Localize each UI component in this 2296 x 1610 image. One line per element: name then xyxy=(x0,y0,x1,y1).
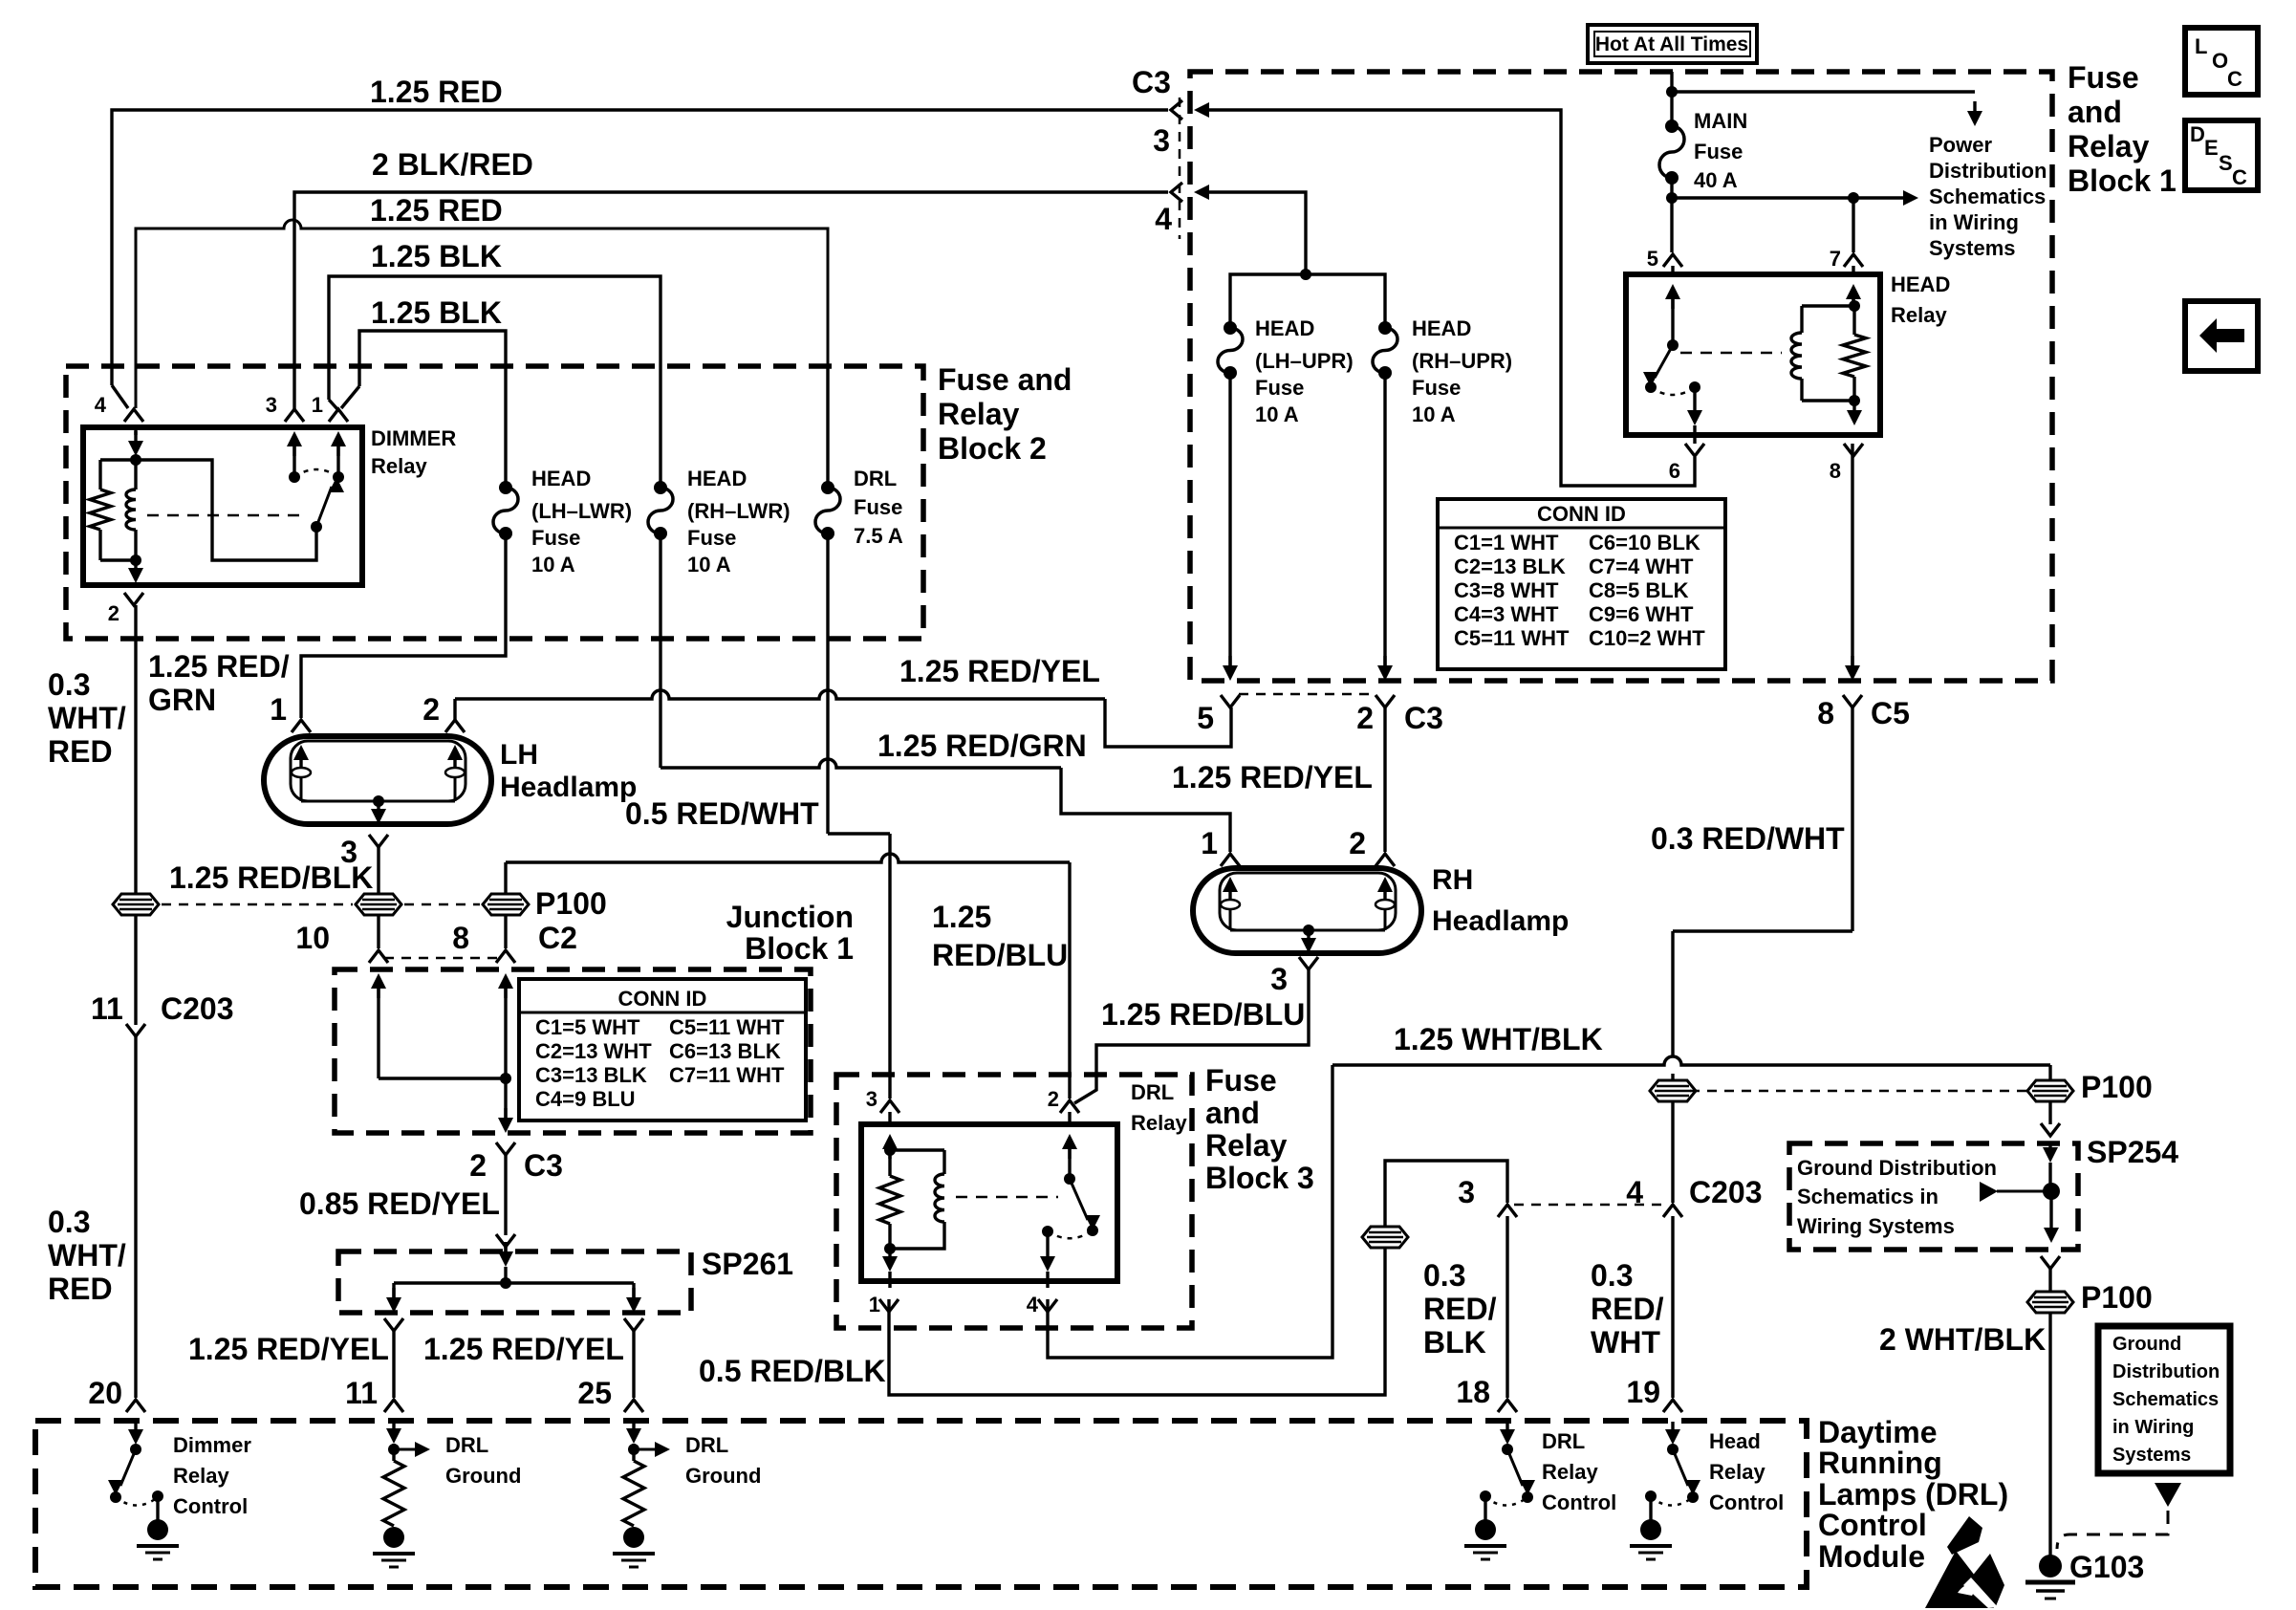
svg-text:P100: P100 xyxy=(2081,1280,2153,1315)
svg-text:Dimmer: Dimmer xyxy=(173,1433,251,1457)
svg-text:4: 4 xyxy=(1626,1175,1643,1209)
svg-text:2 BLK/RED: 2 BLK/RED xyxy=(372,147,533,182)
svg-text:0.3: 0.3 xyxy=(48,667,90,702)
svg-text:Fuse: Fuse xyxy=(687,526,736,550)
svg-text:4: 4 xyxy=(1027,1293,1039,1316)
svg-text:S: S xyxy=(2219,151,2233,175)
svg-text:Ground Distribution: Ground Distribution xyxy=(1797,1156,1997,1180)
svg-text:Relay: Relay xyxy=(1205,1128,1288,1163)
svg-text:C2=13 WHT: C2=13 WHT xyxy=(535,1039,652,1063)
svg-text:0.85 RED/YEL: 0.85 RED/YEL xyxy=(299,1186,500,1221)
svg-text:WHT/: WHT/ xyxy=(48,1238,126,1273)
svg-text:Distribution: Distribution xyxy=(1929,159,2047,183)
svg-text:1.25 BLK: 1.25 BLK xyxy=(371,239,502,273)
svg-text:18: 18 xyxy=(1456,1375,1490,1409)
svg-text:Fuse and: Fuse and xyxy=(938,362,1072,397)
svg-text:CONN ID: CONN ID xyxy=(618,987,707,1011)
svg-text:in Wiring: in Wiring xyxy=(1929,210,2019,234)
svg-text:HEAD: HEAD xyxy=(1255,316,1314,340)
svg-text:6: 6 xyxy=(1669,459,1680,483)
svg-text:2: 2 xyxy=(1048,1087,1059,1111)
svg-text:1: 1 xyxy=(270,692,287,727)
svg-text:0.3: 0.3 xyxy=(1591,1258,1633,1293)
svg-text:(LH–UPR): (LH–UPR) xyxy=(1255,349,1354,373)
svg-text:0.3: 0.3 xyxy=(1423,1258,1465,1293)
svg-text:E: E xyxy=(2204,136,2219,160)
svg-text:(RH–UPR): (RH–UPR) xyxy=(1412,349,1512,373)
svg-text:5: 5 xyxy=(1197,701,1214,735)
svg-text:C1=5 WHT: C1=5 WHT xyxy=(535,1015,640,1039)
svg-text:1.25 RED/GRN: 1.25 RED/GRN xyxy=(877,729,1087,763)
svg-text:Schematics: Schematics xyxy=(1929,185,2046,208)
svg-text:C6=13 BLK: C6=13 BLK xyxy=(669,1039,781,1063)
svg-text:4: 4 xyxy=(95,393,107,417)
svg-text:1.25 RED: 1.25 RED xyxy=(370,75,503,109)
svg-text:Systems: Systems xyxy=(2112,1445,2191,1466)
svg-text:Ground: Ground xyxy=(445,1464,521,1488)
svg-text:11: 11 xyxy=(345,1376,378,1410)
svg-text:RED/: RED/ xyxy=(1591,1292,1664,1326)
svg-text:Relay: Relay xyxy=(2068,129,2150,163)
svg-text:Ground: Ground xyxy=(685,1464,761,1488)
svg-text:C2: C2 xyxy=(538,921,577,955)
svg-text:Fuse: Fuse xyxy=(854,495,902,519)
svg-text:DRL: DRL xyxy=(1542,1429,1585,1453)
svg-text:Relay: Relay xyxy=(173,1464,229,1488)
svg-text:Fuse: Fuse xyxy=(2068,60,2139,95)
svg-text:Block 2: Block 2 xyxy=(938,431,1047,466)
svg-text:C5=11 WHT: C5=11 WHT xyxy=(1454,626,1570,650)
svg-text:Hot At All Times: Hot At All Times xyxy=(1595,33,1748,55)
svg-text:HEAD: HEAD xyxy=(531,467,591,490)
svg-text:1.25 RED/YEL: 1.25 RED/YEL xyxy=(1172,760,1373,794)
svg-text:C2=13 BLK: C2=13 BLK xyxy=(1454,555,1566,578)
svg-text:RED/BLU: RED/BLU xyxy=(932,938,1068,972)
svg-text:Head: Head xyxy=(1709,1429,1761,1453)
svg-text:C3: C3 xyxy=(524,1148,563,1183)
svg-text:DRL: DRL xyxy=(854,467,897,490)
svg-text:SP254: SP254 xyxy=(2087,1135,2178,1169)
svg-text:1: 1 xyxy=(1201,826,1218,860)
svg-text:0.3: 0.3 xyxy=(48,1205,90,1239)
svg-text:Control: Control xyxy=(1709,1490,1784,1514)
svg-text:Headlamp: Headlamp xyxy=(500,772,637,803)
svg-text:(RH–LWR): (RH–LWR) xyxy=(687,499,791,523)
svg-text:C: C xyxy=(2227,67,2242,91)
svg-text:19: 19 xyxy=(1626,1375,1660,1409)
svg-text:Junction: Junction xyxy=(726,900,854,934)
svg-text:0.5 RED/WHT: 0.5 RED/WHT xyxy=(625,796,819,831)
svg-text:25: 25 xyxy=(577,1376,612,1410)
svg-text:O: O xyxy=(2212,49,2228,73)
svg-text:C203: C203 xyxy=(161,991,234,1026)
svg-text:10 A: 10 A xyxy=(687,553,731,577)
svg-text:3: 3 xyxy=(1153,123,1170,158)
svg-text:1.25: 1.25 xyxy=(932,900,991,934)
svg-text:Relay: Relay xyxy=(1542,1460,1598,1484)
svg-text:C8=5 BLK: C8=5 BLK xyxy=(1589,578,1689,602)
svg-text:2: 2 xyxy=(422,692,440,727)
svg-text:RED/: RED/ xyxy=(1423,1292,1497,1326)
svg-text:2: 2 xyxy=(1356,701,1374,735)
svg-text:Block 1: Block 1 xyxy=(745,931,854,966)
svg-text:C4=9 BLU: C4=9 BLU xyxy=(535,1087,636,1111)
svg-text:Running: Running xyxy=(1818,1446,1942,1480)
svg-text:C5=11 WHT: C5=11 WHT xyxy=(669,1015,785,1039)
svg-text:10 A: 10 A xyxy=(1412,402,1456,426)
svg-text:Ground: Ground xyxy=(2112,1334,2181,1355)
svg-text:C: C xyxy=(2232,165,2247,189)
svg-text:1.25 RED: 1.25 RED xyxy=(370,193,503,228)
svg-text:1: 1 xyxy=(869,1293,880,1316)
svg-text:1.25 RED/YEL: 1.25 RED/YEL xyxy=(188,1332,389,1366)
svg-text:1.25 RED/: 1.25 RED/ xyxy=(148,649,290,684)
svg-text:1: 1 xyxy=(312,393,323,417)
svg-text:and: and xyxy=(2068,95,2122,129)
svg-text:5: 5 xyxy=(1647,247,1658,271)
svg-text:DRL: DRL xyxy=(445,1433,488,1457)
svg-text:Fuse: Fuse xyxy=(531,526,580,550)
svg-text:C3: C3 xyxy=(1404,701,1443,735)
svg-text:in Wiring: in Wiring xyxy=(2112,1417,2194,1438)
svg-text:(LH–LWR): (LH–LWR) xyxy=(531,499,632,523)
svg-text:Relay: Relay xyxy=(1131,1111,1187,1135)
svg-text:40 A: 40 A xyxy=(1694,168,1738,192)
svg-text:1.25 RED/BLU: 1.25 RED/BLU xyxy=(1101,997,1305,1032)
svg-text:20: 20 xyxy=(88,1376,122,1410)
svg-text:Control: Control xyxy=(1818,1508,1927,1542)
svg-text:0.3 RED/WHT: 0.3 RED/WHT xyxy=(1651,821,1845,856)
svg-text:C5: C5 xyxy=(1871,696,1910,730)
svg-text:Fuse: Fuse xyxy=(1694,140,1743,163)
svg-text:P100: P100 xyxy=(2081,1070,2153,1104)
svg-text:HEAD: HEAD xyxy=(687,467,747,490)
svg-text:8: 8 xyxy=(452,921,469,955)
svg-text:RED: RED xyxy=(48,1272,113,1306)
svg-text:SP261: SP261 xyxy=(702,1247,793,1281)
svg-text:2 WHT/BLK: 2 WHT/BLK xyxy=(1879,1322,2046,1357)
svg-text:Control: Control xyxy=(1542,1490,1616,1514)
svg-text:Relay: Relay xyxy=(1891,303,1947,327)
svg-text:C1=1 WHT: C1=1 WHT xyxy=(1454,531,1559,555)
svg-text:C9=6 WHT: C9=6 WHT xyxy=(1589,602,1694,626)
svg-text:10 A: 10 A xyxy=(531,553,575,577)
svg-text:C7=4 WHT: C7=4 WHT xyxy=(1589,555,1694,578)
svg-text:8: 8 xyxy=(1817,696,1834,730)
svg-text:C6=10 BLK: C6=10 BLK xyxy=(1589,531,1700,555)
svg-text:Module: Module xyxy=(1818,1539,1925,1574)
svg-text:Fuse: Fuse xyxy=(1412,376,1461,400)
svg-text:C7=11 WHT: C7=11 WHT xyxy=(669,1063,785,1087)
svg-text:RED: RED xyxy=(48,734,113,769)
svg-text:1.25 BLK: 1.25 BLK xyxy=(371,295,502,330)
svg-text:1.25 WHT/BLK: 1.25 WHT/BLK xyxy=(1394,1022,1603,1056)
svg-text:DIMMER: DIMMER xyxy=(371,426,456,450)
svg-text:3: 3 xyxy=(266,393,277,417)
svg-text:7.5 A: 7.5 A xyxy=(854,524,903,548)
svg-text:Fuse: Fuse xyxy=(1205,1063,1277,1098)
svg-text:LH: LH xyxy=(500,739,538,771)
svg-text:and: and xyxy=(1205,1096,1260,1130)
svg-text:8: 8 xyxy=(1830,459,1841,483)
svg-text:Schematics in: Schematics in xyxy=(1797,1185,1939,1208)
svg-text:Block 1: Block 1 xyxy=(2068,163,2177,198)
svg-text:Headlamp: Headlamp xyxy=(1432,905,1569,937)
svg-text:Relay: Relay xyxy=(1709,1460,1765,1484)
svg-text:Systems: Systems xyxy=(1929,236,2016,260)
svg-text:DRL: DRL xyxy=(685,1433,728,1457)
svg-text:Relay: Relay xyxy=(371,454,427,478)
svg-text:Relay: Relay xyxy=(938,397,1020,431)
svg-text:HEAD: HEAD xyxy=(1891,272,1950,296)
svg-text:C3=13 BLK: C3=13 BLK xyxy=(535,1063,647,1087)
svg-text:Block 3: Block 3 xyxy=(1205,1161,1314,1195)
svg-text:C3=8 WHT: C3=8 WHT xyxy=(1454,578,1559,602)
svg-text:P100: P100 xyxy=(535,886,607,921)
svg-text:0.5 RED/BLK: 0.5 RED/BLK xyxy=(699,1354,886,1388)
svg-text:10 A: 10 A xyxy=(1255,402,1299,426)
svg-text:Daytime: Daytime xyxy=(1818,1415,1938,1449)
svg-text:CONN ID: CONN ID xyxy=(1537,502,1626,526)
svg-text:2: 2 xyxy=(1349,826,1366,860)
svg-text:Distribution: Distribution xyxy=(2112,1361,2220,1382)
svg-text:1.25 RED/YEL: 1.25 RED/YEL xyxy=(899,654,1100,688)
svg-text:DRL: DRL xyxy=(1131,1080,1174,1104)
svg-text:L: L xyxy=(2195,34,2207,58)
svg-text:Fuse: Fuse xyxy=(1255,376,1304,400)
svg-text:Power: Power xyxy=(1929,133,1992,157)
svg-text:GRN: GRN xyxy=(148,683,216,717)
svg-text:C203: C203 xyxy=(1689,1175,1763,1209)
svg-text:WHT/: WHT/ xyxy=(48,701,126,735)
svg-text:Wiring Systems: Wiring Systems xyxy=(1797,1214,1955,1238)
svg-text:3: 3 xyxy=(1458,1175,1475,1209)
svg-text:BLK: BLK xyxy=(1423,1325,1486,1360)
svg-text:2: 2 xyxy=(108,601,119,625)
svg-text:3: 3 xyxy=(340,835,357,869)
svg-text:1.25 RED/YEL: 1.25 RED/YEL xyxy=(423,1332,624,1366)
svg-text:D: D xyxy=(2190,122,2205,146)
svg-text:3: 3 xyxy=(1270,962,1288,996)
svg-text:10: 10 xyxy=(295,921,330,955)
svg-text:2: 2 xyxy=(469,1148,487,1183)
svg-text:11: 11 xyxy=(91,991,123,1026)
svg-text:Lamps (DRL): Lamps (DRL) xyxy=(1818,1477,2008,1512)
svg-text:G103: G103 xyxy=(2069,1550,2144,1584)
svg-text:MAIN: MAIN xyxy=(1694,109,1747,133)
svg-text:C3: C3 xyxy=(1132,65,1171,99)
svg-text:WHT: WHT xyxy=(1591,1325,1660,1360)
svg-text:C10=2 WHT: C10=2 WHT xyxy=(1589,626,1705,650)
svg-text:C4=3 WHT: C4=3 WHT xyxy=(1454,602,1559,626)
svg-text:HEAD: HEAD xyxy=(1412,316,1471,340)
svg-text:RH: RH xyxy=(1432,864,1473,896)
svg-text:4: 4 xyxy=(1155,202,1172,236)
svg-text:Schematics: Schematics xyxy=(2112,1389,2219,1410)
svg-text:3: 3 xyxy=(866,1087,877,1111)
svg-text:Control: Control xyxy=(173,1494,248,1518)
svg-text:7: 7 xyxy=(1830,247,1841,271)
